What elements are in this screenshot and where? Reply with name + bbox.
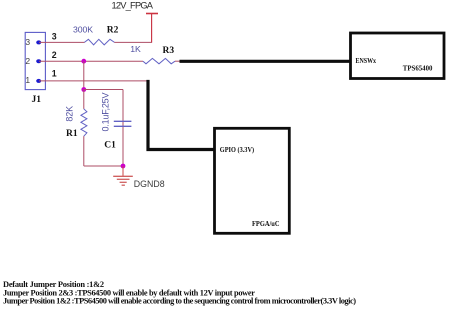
wire R3 to ENSWx stub [175,60,180,62]
pin number 2 inside J1 [25,56,30,66]
junction node C (ground) [121,164,126,169]
TPS65400 part label [403,63,433,72]
wire node B to R1 top [83,90,85,109]
R1 refdes [66,129,78,139]
wire R2 to 12V_FPGA riser [114,14,151,42]
note line 3: jumper position 1&2 [3,296,356,305]
R2 value 300K [73,25,93,35]
svg-text:R1: R1 [66,129,78,139]
junction node B [81,87,86,92]
svg-text:ENSWx: ENSWx [356,56,377,65]
svg-text:J1: J1 [32,95,42,105]
ENSWx pin label [356,56,377,65]
svg-text:DGND8: DGND8 [134,179,165,189]
svg-text:3: 3 [52,32,57,42]
power symbol 12V_FPGA bar [146,14,158,43]
pin number 1 inside J1 [25,75,30,85]
wire node B to C1 top [84,89,123,91]
wire R1 bottom lead [83,136,85,166]
svg-text:R2: R2 [107,26,119,36]
pin 2 dot [36,59,41,63]
svg-text:82K: 82K [65,106,75,122]
thick wire pin1 net to GPIO [148,80,215,150]
wire junction drop to node B [83,61,85,89]
svg-text:1: 1 [52,68,57,78]
pin 1 dot [36,79,41,83]
resistor R3 zigzag [143,58,175,63]
svg-text:1: 1 [25,75,30,85]
block FPGA/uC [215,128,290,233]
capacitor C1 top lead [122,90,124,167]
connector J1 body [25,32,45,89]
pin number 2 outside J1 [52,50,57,60]
svg-text:TPS65400: TPS65400 [403,63,433,72]
junction on pin2 net [81,59,86,64]
R2 refdes [107,26,119,36]
svg-text:2: 2 [52,50,57,60]
svg-text:3: 3 [25,37,30,47]
R3 refdes [163,46,175,56]
ground net label DGND8 [134,179,165,189]
pin number 3 outside J1 [52,32,57,42]
wire pin3 to R2 [39,41,85,43]
C1 value 0.1uF,25V (rotated) [101,93,111,132]
svg-text:2: 2 [25,56,30,66]
svg-text:300K: 300K [73,25,93,35]
R3 value 1K [130,44,141,54]
thick wire R3 to ENSWx [180,60,351,63]
GPIO (3.3V) pin label [220,145,255,154]
svg-text:R3: R3 [163,46,175,56]
pin number 1 outside J1 [52,68,57,78]
net label 12V_FPGA [112,1,154,11]
R1 value 82K (rotated) [65,106,75,122]
block U? ENSWx / TPS65400 [351,33,445,79]
svg-text:1K: 1K [130,44,141,54]
resistor R2 zigzag [84,39,114,45]
note line 1: default jumper position [3,280,104,289]
svg-text:GPIO (3.3V): GPIO (3.3V) [220,145,255,154]
svg-text:12V_FPGA: 12V_FPGA [112,1,154,11]
wire pin2 to R3 [39,60,143,62]
svg-text:Jumper Position 1&2 :TPS64500: Jumper Position 1&2 :TPS64500 will enabl… [3,296,356,305]
pin number 3 inside J1 [25,37,30,47]
note line 2: jumper position 2&3 [3,288,255,297]
svg-text:C1: C1 [104,140,116,150]
wire R1 bottom to ground node [84,165,123,167]
pin 3 dot [36,40,41,44]
resistor R1 zigzag (vertical) [81,109,87,136]
FPGA/uC part label [252,219,280,228]
ground DGND8 symbol [113,166,133,185]
C1 refdes [104,140,116,150]
wire pin1 to FPGA [39,80,147,82]
J1 refdes label [32,95,42,105]
svg-text:0.1uF,25V: 0.1uF,25V [101,93,111,132]
svg-text:FPGA/uC: FPGA/uC [252,219,280,228]
capacitor C1 plates [114,121,132,126]
